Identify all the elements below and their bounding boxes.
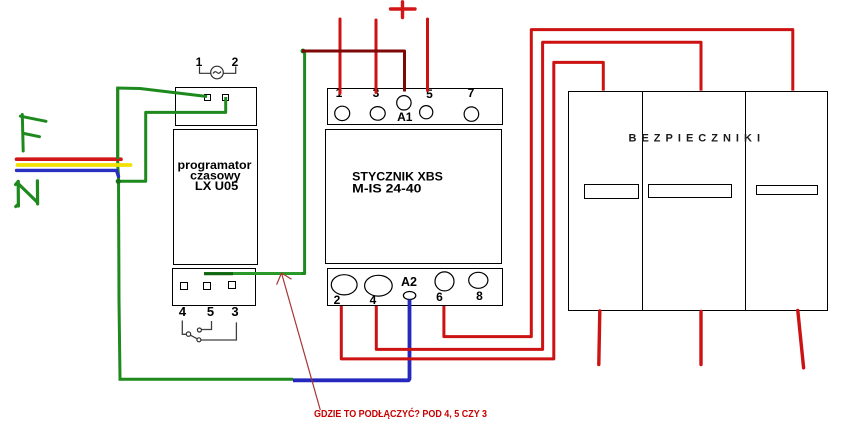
fuse box divider 1 bbox=[642, 92, 644, 311]
svg-text:3: 3 bbox=[231, 304, 238, 319]
contactor K1 top terminal strip bbox=[328, 89, 503, 125]
wire maroon from green junction to coil A1 bbox=[302, 51, 405, 92]
lamp symbol between pins 1 and 2 bbox=[200, 66, 236, 79]
terminal circle 2 bbox=[331, 275, 357, 295]
wire green from N junction to programator terminal 2 bbox=[118, 97, 226, 181]
svg-text:4: 4 bbox=[370, 293, 377, 307]
svg-text:2: 2 bbox=[334, 293, 341, 307]
wire blue from green run to A2 terminal bbox=[293, 300, 410, 381]
switch contact circle at pin 5 side bbox=[197, 328, 201, 332]
wire neutral N (blue bus line) bbox=[17, 170, 119, 176]
wire green darker overdraw left end bbox=[204, 272, 233, 275]
wire yellow bus line bbox=[18, 163, 131, 167]
programator bottom terminal box bbox=[173, 269, 256, 306]
wire supply phase to contactor pin 5 bbox=[426, 19, 429, 91]
svg-text:M-IS 24-40: M-IS 24-40 bbox=[352, 184, 421, 196]
wire green from F up to programator terminal 1 bbox=[118, 88, 207, 159]
svg-text:4: 4 bbox=[179, 304, 187, 319]
terminal circle 7 bbox=[464, 107, 479, 121]
node F label bbox=[20, 115, 46, 152]
wire fuse 1 output stub bbox=[599, 311, 600, 365]
wire contactor pin 6 to fuse 3 bbox=[444, 30, 793, 337]
coil terminal circle A1 bbox=[397, 96, 411, 110]
wire green bottom run from left vertical to blue wire bbox=[119, 378, 294, 381]
terminal circle 1 bbox=[335, 106, 350, 120]
terminal square pin 1 bbox=[205, 95, 211, 101]
wire contactor pin 4 to fuse 2 bbox=[376, 42, 701, 349]
contactor K1 main box bbox=[326, 130, 502, 264]
wire phase L (red bus line) bbox=[17, 157, 122, 161]
svg-text:7: 7 bbox=[468, 86, 475, 100]
svg-text:A1: A1 bbox=[397, 110, 413, 124]
terminal square pin 5 bbox=[204, 283, 211, 290]
fuse F2 window bbox=[649, 185, 732, 198]
fuse F1 window bbox=[585, 185, 639, 199]
terminal square pin 4 bbox=[181, 283, 188, 290]
svg-text:GDZIE TO PODŁĄCZYĆ? POD 4, 5 C: GDZIE TO PODŁĄCZYĆ? POD 4, 5 CZY 3 bbox=[314, 407, 487, 420]
svg-text:5: 5 bbox=[207, 304, 214, 319]
label plus supply bbox=[391, 2, 416, 18]
coil terminal circle A2 bbox=[403, 292, 415, 300]
contactor K1 bottom terminal strip bbox=[328, 269, 503, 306]
svg-text:STYCZNIK XBS: STYCZNIK XBS bbox=[352, 171, 443, 183]
wire supply phase to contactor pin 3 bbox=[375, 20, 378, 93]
svg-text:A2: A2 bbox=[401, 275, 417, 289]
switch S1 changeover contact under programator bbox=[182, 321, 236, 341]
terminal circle 4 bbox=[365, 275, 393, 296]
wire green vertical from F/N bus down to bottom run bbox=[118, 88, 120, 379]
terminal circle 6 bbox=[435, 272, 454, 291]
wire fuse 2 output stub bbox=[699, 312, 702, 365]
wire green brighter mid segment bbox=[233, 272, 301, 275]
programator main box bbox=[174, 130, 258, 265]
wire green from programator terminal 5 to contactor A1 riser bbox=[204, 51, 305, 274]
node N label bbox=[16, 181, 38, 207]
svg-text:8: 8 bbox=[476, 289, 483, 303]
fuse box divider 2 bbox=[745, 92, 747, 311]
wire fuse 3 output stub bbox=[798, 311, 804, 368]
fuse box BEZPIECZNIKI outline bbox=[569, 92, 828, 311]
wire contactor pin 2 to fuse 1 bbox=[341, 62, 603, 359]
terminal circle 3 bbox=[370, 107, 385, 121]
switch contact circle on lever end bbox=[197, 338, 201, 342]
terminal square pin 2 bbox=[223, 95, 229, 101]
wire supply phase to contactor pin 1 bbox=[339, 19, 342, 94]
junction green to A1 wire bbox=[301, 49, 306, 54]
terminal circle 8 bbox=[469, 272, 488, 288]
annotation arrow to green wire bbox=[277, 273, 321, 410]
svg-text:6: 6 bbox=[436, 290, 443, 304]
svg-text:LX U05: LX U05 bbox=[195, 179, 239, 193]
terminal square pin 3 bbox=[229, 282, 236, 289]
junction green N bbox=[116, 179, 121, 184]
programator top terminal box bbox=[176, 88, 257, 126]
switch contact circle at pin 4 side bbox=[186, 332, 190, 336]
programator bottom strip edge step bbox=[214, 305, 256, 307]
terminal circle 5 bbox=[420, 106, 433, 119]
fuse F3 window bbox=[757, 186, 818, 195]
